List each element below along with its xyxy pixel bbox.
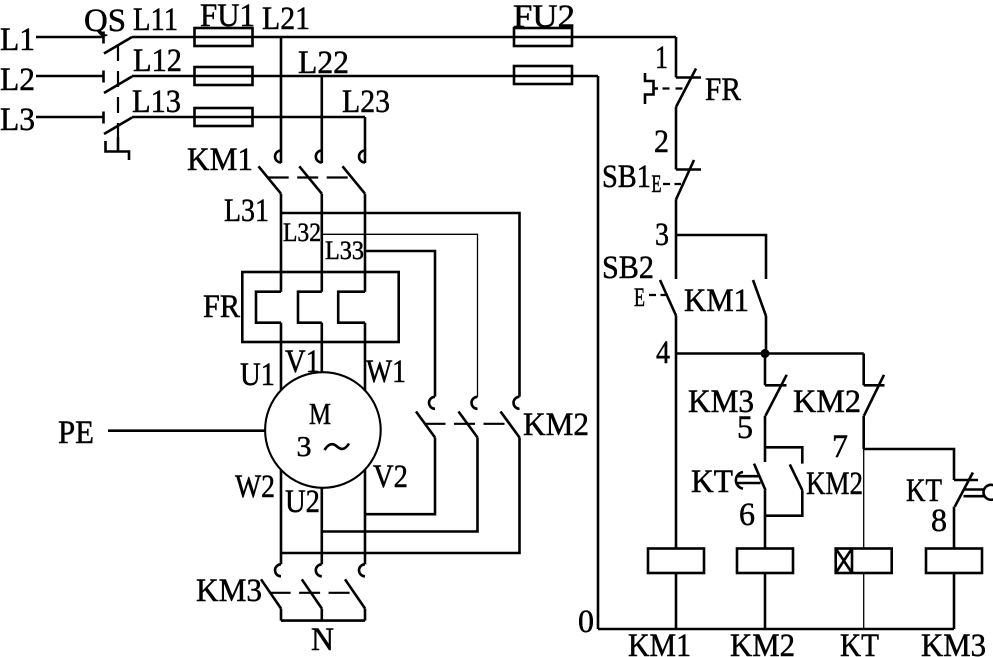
wire L12 (132, 75, 598, 78)
relay FR actuator bracket (645, 73, 658, 104)
thermal relay FR heater phaseC (338, 292, 365, 323)
svg-text:N: N (311, 622, 334, 657)
wire KM2 coil to 0 (764, 573, 767, 629)
contactor KM3 linkage dashed (270, 592, 354, 594)
contactor KM1 linkage dashed (268, 176, 353, 178)
wire L2 feed (36, 75, 103, 78)
coil KM3 (926, 549, 982, 574)
button SB1 actuator dashes (663, 183, 681, 185)
contactor KM1 pole3 hook (359, 151, 365, 163)
wire rail 3-SB2 (675, 235, 678, 279)
wire node4 line (676, 352, 864, 355)
timer KT delayed break blade (955, 473, 973, 507)
svg-text:L33: L33 (325, 236, 364, 265)
svg-text:FR: FR (203, 289, 240, 325)
wire V2 drop (364, 469, 367, 564)
wire L1 feed (36, 36, 103, 39)
wire KM2 pole3 to W2 (281, 438, 520, 554)
svg-text:L13: L13 (132, 84, 181, 120)
svg-text:KM2: KM2 (523, 407, 589, 443)
contactor KM2 pole3 hook (514, 397, 520, 409)
switch QS linkage dashed (117, 45, 119, 137)
wire KM2 pole2 to U2 (322, 438, 478, 532)
wire node7 to KT coil (863, 449, 865, 549)
wire W1 (364, 323, 367, 391)
svg-text:KT: KT (691, 464, 733, 500)
svg-text:W2: W2 (235, 469, 275, 505)
contact KM3 break bar (765, 384, 787, 387)
wire L31 branch (281, 213, 520, 397)
switch QS pole3 fixed tick (102, 112, 105, 124)
svg-text:FR: FR (705, 72, 741, 108)
contactor KM3 pole2 hook (316, 564, 322, 576)
svg-text:KT: KT (840, 628, 879, 657)
contactor KM1 pole2 hook (316, 151, 322, 163)
contactor KM3 pole3 blade (345, 579, 365, 608)
switch QS pole2 fixed tick (102, 71, 105, 83)
button SB1 break bar (676, 168, 701, 171)
wire W2 drop (280, 470, 283, 565)
svg-text:SB1: SB1 (602, 159, 651, 195)
wire left rail (597, 76, 600, 629)
contactor KM3 pole3 hook (359, 564, 365, 576)
svg-text:L11: L11 (133, 2, 178, 38)
coil KM1 (648, 549, 704, 574)
wire KM1 coil to 0 (675, 573, 678, 629)
svg-text:L21: L21 (262, 1, 310, 37)
contactor KM1 pole1 blade (259, 166, 282, 193)
contact KM1 make blade (753, 280, 766, 316)
wire KM2 break to node7 (862, 416, 865, 449)
svg-text:QS: QS (84, 3, 126, 39)
button SB1 break blade (676, 160, 694, 200)
fuse FU1 pole3 (195, 108, 253, 126)
wire rail 6-KM2coil (764, 490, 767, 549)
svg-text:7: 7 (832, 429, 848, 465)
wire node4-KM2contact (862, 354, 865, 386)
wire KM3 coil to 0 (953, 573, 956, 629)
svg-text:KM2: KM2 (806, 466, 863, 502)
svg-text:FU2: FU2 (513, 0, 575, 35)
svg-text:V1: V1 (285, 344, 320, 380)
timer KT delay symbol (735, 472, 760, 489)
svg-text:U1: U1 (240, 357, 275, 393)
wire KM2 pole1 to V2 (365, 438, 435, 515)
svg-text:8: 8 (931, 503, 947, 539)
wire PE (108, 429, 265, 432)
contact KM2 aux make blade (790, 464, 803, 490)
wire node3 branch (676, 235, 766, 279)
fuse FU2 upper (514, 28, 572, 46)
wire U1 (280, 323, 283, 391)
svg-text:3: 3 (297, 431, 312, 463)
svg-text:L31: L31 (224, 193, 269, 229)
svg-text:PE: PE (58, 415, 94, 451)
svg-text:L23: L23 (342, 84, 390, 120)
wire L13 (132, 116, 365, 119)
wire node4-KM3contact (764, 354, 767, 386)
relay FR break contact bar (676, 76, 701, 79)
switch QS linkage lower (117, 137, 120, 152)
contactor KM3 pole1 hook (275, 564, 281, 576)
wire L11 (132, 36, 676, 39)
svg-text:3: 3 (655, 217, 669, 253)
svg-text:KM3: KM3 (921, 628, 986, 657)
wire L3 feed (36, 116, 103, 119)
svg-text:L3: L3 (0, 102, 35, 138)
contactor KM2 linkage dashed (425, 423, 512, 425)
svg-text:L32: L32 (283, 218, 321, 247)
contact KM2 break blade (864, 375, 884, 416)
wire star bus N (281, 609, 365, 621)
svg-text:L12: L12 (133, 43, 182, 79)
svg-text:E: E (652, 171, 662, 198)
wire rail 5-KT (764, 416, 767, 462)
svg-text:6: 6 (739, 497, 755, 533)
wire right rail top (675, 37, 678, 78)
wire KM1 aux to node4 (765, 316, 768, 354)
wire phaseB KM1 to FR (320, 194, 323, 292)
contactor KM2 pole2 hook (472, 397, 478, 409)
svg-text:E: E (634, 283, 645, 312)
contactor KM2 pole1 hook (429, 397, 435, 409)
relay FR actuator dashes (663, 87, 685, 89)
svg-text:4: 4 (656, 335, 670, 371)
timer KT delay symbol right (964, 490, 985, 497)
contactor KM2 pole1 blade (416, 412, 435, 438)
contactor KM3 pole1 blade (261, 579, 281, 608)
contactor KM2 pole2 blade (459, 412, 478, 438)
svg-text:KM2: KM2 (730, 628, 795, 657)
svg-text:5: 5 (737, 410, 753, 446)
contact KM2 break bar (864, 384, 885, 387)
contactor KM1 pole3 blade (343, 166, 366, 193)
svg-text:L22: L22 (298, 45, 349, 81)
thermal relay FR heater phaseA (256, 292, 281, 323)
contact KM3 break blade (766, 375, 787, 416)
wire node7 line (864, 449, 954, 480)
wire phaseC KM1 to FR (364, 194, 367, 292)
junction node4 dot (761, 349, 770, 358)
svg-text:V2: V2 (373, 459, 408, 495)
contactor KM1 pole1 hook (275, 151, 281, 163)
contactor KM1 pole2 blade (299, 166, 322, 193)
motor M circle (265, 372, 381, 488)
wire 0 rail (598, 628, 954, 631)
switch QS handle bracket (106, 141, 130, 160)
switch QS pole1 blade (104, 37, 132, 54)
svg-text:KM1: KM1 (187, 142, 253, 178)
wire L22 drop (320, 76, 323, 163)
svg-text:L1: L1 (0, 22, 35, 58)
timer KT delayed make blade (754, 464, 766, 491)
fuse FU2 lower (514, 66, 572, 84)
svg-text:KM1: KM1 (684, 283, 749, 319)
thermal relay FR box (242, 272, 398, 342)
fuse FU1 pole2 (195, 67, 253, 85)
wire phaseA KM1 to FR (280, 194, 283, 292)
wire L23 drop (364, 117, 367, 163)
wire L32 branch (322, 234, 478, 396)
svg-text:W1: W1 (366, 354, 406, 390)
contactor KM3 pole2 blade (302, 579, 322, 608)
coil KT (836, 549, 892, 574)
wire V1 (320, 323, 323, 373)
wire KT coil to 0 (863, 573, 865, 629)
wire rail 2-3 (675, 200, 678, 236)
timer KT delayed break bar (954, 479, 978, 482)
wire rail SB2-node4 (675, 316, 678, 354)
wire L33 branch (365, 251, 435, 397)
svg-text:SB2: SB2 (602, 250, 654, 286)
button SB2 actuator dashes (649, 294, 667, 296)
wire node4 to KM1 coil (675, 354, 678, 550)
fuse FU1 pole1 (195, 28, 253, 46)
wire 8 to KM3 coil (953, 507, 956, 549)
timer KT delay circle (984, 485, 993, 500)
switch QS pole1 fixed tick (102, 32, 105, 44)
svg-text:1: 1 (655, 40, 668, 76)
wire KM2 aux branch (765, 447, 802, 515)
svg-text:U2: U2 (285, 484, 320, 520)
contactor KM2 pole3 blade (501, 412, 520, 438)
wire L21 drop (280, 37, 283, 163)
svg-text:KM1: KM1 (628, 628, 691, 657)
svg-text:0: 0 (578, 604, 594, 640)
thermal relay FR heater phaseB (298, 292, 322, 323)
wire rail 1-2 (675, 107, 678, 170)
svg-text:2: 2 (654, 124, 669, 160)
svg-text:KM3: KM3 (196, 573, 262, 609)
switch QS pole3 blade (104, 118, 132, 135)
coil KT delay X mark (836, 549, 852, 574)
svg-text:L2: L2 (0, 62, 35, 98)
wire U2 drop (320, 488, 323, 565)
coil KM2 (737, 549, 793, 574)
svg-text:KM2: KM2 (793, 384, 861, 420)
svg-text:M: M (309, 396, 331, 431)
button SB2 make blade (660, 280, 676, 316)
relay FR break contact blade (676, 69, 696, 108)
switch QS pole2 blade (104, 77, 132, 94)
motor tilde mark (325, 444, 350, 451)
